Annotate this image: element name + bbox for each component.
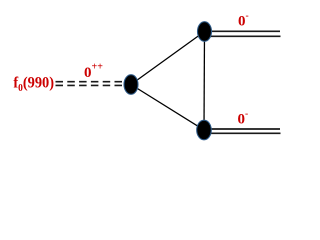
scalar propagator: double dashed line <box>56 82 125 86</box>
label f0(990) <box>13 74 54 94</box>
vertex V3 (bottom) <box>197 120 212 140</box>
wire V1-V2 (upper triangle side) <box>131 32 205 85</box>
wire V1-V3 (lower triangle side) <box>131 85 204 131</box>
lower meson double line <box>210 129 281 133</box>
vertex V1 (left) <box>124 75 138 95</box>
vertex V2 (top) <box>198 22 212 42</box>
wire V2-V3 (vertical triangle side) <box>203 32 206 131</box>
upper meson double line <box>210 31 281 36</box>
